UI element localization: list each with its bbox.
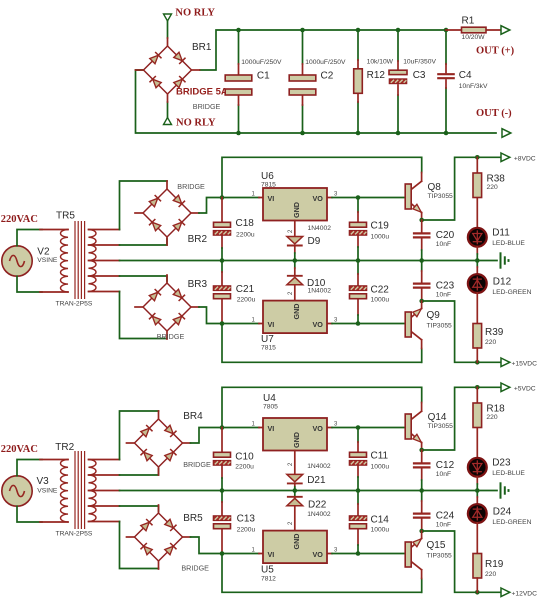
- svg-text:C18: C18: [236, 218, 255, 229]
- resistor R39: [473, 324, 482, 349]
- wire R12 bottom lead: [357, 102, 359, 133]
- svg-text:7815: 7815: [261, 182, 276, 189]
- svg-text:GND: GND: [292, 304, 301, 320]
- svg-text:BRIDGE: BRIDGE: [157, 332, 185, 341]
- node C20 bus: [419, 258, 424, 263]
- diode D22: [294, 491, 296, 498]
- svg-text:GND: GND: [292, 534, 301, 550]
- svg-text:OUT (+): OUT (+): [476, 46, 515, 57]
- svg-text:+15VDC: +15VDC: [512, 361, 538, 368]
- wire C2 bottom lead: [302, 105, 304, 133]
- node bot gnd: [475, 488, 480, 493]
- node C3 top: [396, 28, 401, 33]
- terminal NO RLY top: [164, 14, 172, 21]
- capacitor C3: [397, 61, 399, 95]
- capacitor C4: [445, 64, 447, 88]
- svg-text:TIP3055: TIP3055: [427, 323, 453, 330]
- node R18 top: [475, 385, 480, 390]
- wire Q9 collector to +15V riser: [422, 301, 500, 362]
- resistor R18: [476, 387, 478, 458]
- wire C3 bottom lead: [397, 95, 399, 133]
- node U5 input: [220, 551, 225, 556]
- svg-text:TIP3055: TIP3055: [427, 553, 453, 560]
- source V2: [2, 246, 32, 276]
- wire BR2 to U6 input node: [199, 198, 259, 214]
- capacitor C2: [302, 64, 304, 105]
- capacitor C13: [221, 491, 223, 503]
- node C22 bottom: [356, 321, 361, 326]
- node C12 bus: [419, 488, 424, 493]
- diode D10: [294, 261, 296, 269]
- capacitor C10: [221, 428, 223, 479]
- svg-text:VI: VI: [268, 424, 275, 433]
- svg-text:C4: C4: [459, 70, 472, 81]
- svg-text:1000u: 1000u: [371, 527, 390, 534]
- svg-text:2200u: 2200u: [237, 527, 256, 534]
- node Q14 emitter: [419, 448, 424, 453]
- svg-text:BRIDGE: BRIDGE: [181, 564, 209, 573]
- svg-text:TIP3055: TIP3055: [428, 423, 454, 430]
- svg-text:+12VDC: +12VDC: [512, 591, 538, 598]
- svg-text:1N4002: 1N4002: [307, 511, 331, 518]
- ground: [501, 252, 509, 268]
- svg-text:C21: C21: [236, 284, 255, 295]
- svg-text:C19: C19: [371, 221, 390, 232]
- terminal +8VDC: [501, 153, 510, 162]
- svg-text:LED-GREEN: LED-GREEN: [492, 289, 531, 296]
- svg-text:TRAN-2P5S: TRAN-2P5S: [56, 531, 93, 538]
- svg-text:1000u: 1000u: [371, 464, 390, 471]
- node C4 bottom: [444, 131, 449, 136]
- capacitor C22: [357, 261, 359, 275]
- svg-text:D11: D11: [492, 228, 510, 239]
- wire Q8 emitter to +8V riser: [422, 157, 500, 220]
- node mid gnd: [475, 258, 480, 263]
- svg-text:OUT (-): OUT (-): [476, 108, 512, 119]
- svg-text:U5: U5: [261, 565, 274, 576]
- svg-text:C10: C10: [235, 452, 254, 463]
- svg-text:VI: VI: [268, 194, 275, 203]
- wire TR2 pin2 to BR4: [120, 469, 159, 475]
- LED D24 LED-GREEN: [476, 491, 478, 498]
- transistor Q9 TIP3055: [421, 349, 423, 363]
- svg-text:BRIDGE: BRIDGE: [177, 182, 205, 191]
- regulator U5 7812: [259, 553, 332, 555]
- svg-text:2200u: 2200u: [237, 297, 256, 304]
- svg-text:R12: R12: [367, 70, 386, 81]
- wire C3 top lead: [397, 30, 399, 61]
- diode D21: [294, 450, 296, 487]
- svg-text:Q9: Q9: [427, 310, 441, 321]
- svg-text:220VAC: 220VAC: [1, 214, 38, 225]
- terminal OUT-: [502, 129, 511, 138]
- node C18 bus: [220, 258, 225, 263]
- svg-text:GND: GND: [292, 202, 301, 218]
- svg-text:BR4: BR4: [183, 411, 203, 422]
- resistor R12: [357, 60, 359, 102]
- svg-text:U7: U7: [261, 334, 274, 345]
- wire TR5 pin1 to BR2: [120, 181, 168, 230]
- svg-text:NO RLY: NO RLY: [175, 8, 215, 19]
- svg-text:10/20W: 10/20W: [462, 34, 486, 41]
- node R39 bottom: [475, 360, 480, 365]
- terminal +5VDC: [501, 383, 510, 392]
- terminal +12VDC: [501, 588, 510, 597]
- bridge rectifier BR5: [127, 505, 191, 569]
- wire Q15 collector to +12V riser: [422, 531, 500, 592]
- wire TR5 pin4 to BR3: [120, 276, 168, 281]
- svg-text:U4: U4: [263, 393, 276, 404]
- wire V2 bottom to TR5: [17, 276, 42, 292]
- svg-text:V2: V2: [37, 247, 50, 258]
- svg-text:D22: D22: [308, 500, 327, 511]
- svg-text:220: 220: [485, 339, 496, 346]
- svg-text:C13: C13: [237, 514, 256, 525]
- transistor Q15 TIP3055: [421, 579, 423, 593]
- capacitor C19: [357, 198, 359, 213]
- svg-text:D9: D9: [308, 236, 321, 247]
- wire U4 VO to Q14 base: [332, 427, 405, 429]
- wire U7 VO to Q9 base: [332, 323, 405, 325]
- svg-text:10nF: 10nF: [436, 522, 451, 529]
- svg-text:C22: C22: [371, 285, 390, 296]
- svg-text:10k/10W: 10k/10W: [367, 59, 394, 66]
- wire U5 VO to Q15 base: [332, 553, 405, 555]
- svg-text:C2: C2: [321, 71, 334, 82]
- svg-text:10uF/350V: 10uF/350V: [403, 59, 436, 66]
- svg-text:C20: C20: [436, 230, 455, 241]
- node Q9 collector: [419, 299, 424, 304]
- svg-text:TRAN-2P5S: TRAN-2P5S: [56, 301, 93, 308]
- svg-text:1N4002: 1N4002: [308, 288, 332, 295]
- svg-text:10nF: 10nF: [436, 292, 451, 299]
- svg-text:V3: V3: [37, 476, 50, 487]
- wire input riser to bottom rail: [222, 324, 422, 363]
- transistor Q8 TIP3055: [405, 173, 421, 221]
- svg-text:C14: C14: [371, 515, 390, 526]
- capacitor C12: [421, 450, 423, 480]
- node U6 input: [220, 195, 225, 200]
- svg-text:1N4002: 1N4002: [307, 463, 331, 470]
- terminal OUT+: [501, 26, 510, 35]
- terminal NO RLY bottom: [164, 118, 172, 125]
- svg-text:R39: R39: [485, 327, 504, 338]
- terminal +15VDC: [501, 358, 510, 367]
- svg-text:BRIDGE: BRIDGE: [193, 102, 221, 111]
- node C11 top: [356, 425, 361, 430]
- node U7 input: [220, 321, 225, 326]
- wire C4 bottom lead: [445, 88, 447, 133]
- node C3 bottom: [396, 131, 401, 136]
- wire bridge to NO RLY bottom: [167, 102, 169, 118]
- svg-text:VO: VO: [313, 550, 324, 559]
- wire C2 top lead: [302, 30, 304, 64]
- LED D12 LED-GREEN: [476, 261, 478, 268]
- svg-text:10nF: 10nF: [436, 471, 451, 478]
- transformer TR5: [40, 221, 120, 299]
- svg-text:+8VDC: +8VDC: [514, 155, 536, 162]
- wire NO RLY top to bridge: [167, 21, 169, 38]
- node C2 top: [300, 28, 305, 33]
- node C14 bottom: [356, 551, 361, 556]
- capacitor C11: [357, 428, 359, 443]
- bridge rectifier BR3: [135, 275, 199, 339]
- bridge rectifier BR1: [136, 38, 200, 102]
- svg-text:C24: C24: [436, 511, 455, 522]
- svg-text:GND: GND: [292, 432, 301, 448]
- regulator U6 7815: [259, 197, 332, 199]
- svg-text:VSINE: VSINE: [37, 488, 58, 495]
- wire V3 bottom to TR2: [17, 506, 42, 522]
- wire V2 top to TR5: [17, 230, 42, 246]
- capacitor C20: [421, 220, 423, 250]
- wire V3 top to TR2: [17, 460, 42, 476]
- svg-text:C23: C23: [436, 281, 455, 292]
- node R12 bottom: [356, 131, 361, 136]
- svg-text:D21: D21: [307, 475, 326, 486]
- svg-text:BR3: BR3: [188, 279, 208, 290]
- svg-text:7812: 7812: [261, 576, 276, 583]
- node R19 bottom: [475, 590, 480, 595]
- wire input riser to bottom rail: [222, 554, 422, 593]
- node C4 top: [444, 28, 449, 33]
- svg-text:VSINE: VSINE: [37, 257, 58, 264]
- source V3: [2, 476, 32, 506]
- wire TR5 pin5 to BR3: [120, 292, 168, 339]
- svg-text:1000uF/250V: 1000uF/250V: [241, 59, 282, 66]
- svg-text:Q15: Q15: [427, 540, 446, 551]
- wire R12 top lead: [357, 30, 359, 60]
- svg-text:1N4002: 1N4002: [308, 225, 332, 232]
- wire BR4 to U4 input node: [191, 428, 260, 444]
- svg-text:VO: VO: [313, 424, 324, 433]
- node C19 top: [356, 195, 361, 200]
- node C2 bottom: [300, 131, 305, 136]
- wire top bus: [200, 30, 446, 70]
- wire BR5 to U5 input node: [191, 537, 260, 554]
- svg-text:1000u: 1000u: [371, 234, 390, 241]
- svg-text:R1: R1: [462, 16, 475, 27]
- wire BR3 to U7 input node: [199, 307, 259, 324]
- wire input riser to top rail: [222, 157, 422, 197]
- svg-text:R38: R38: [487, 174, 506, 185]
- node C1 top: [236, 28, 241, 33]
- svg-text:220: 220: [486, 414, 497, 421]
- svg-text:220VAC: 220VAC: [1, 444, 38, 455]
- svg-text:U6: U6: [261, 171, 274, 182]
- LED D23 LED-BLUE: [468, 458, 487, 477]
- svg-text:1000u: 1000u: [371, 297, 390, 304]
- wire C4 top lead: [445, 30, 447, 64]
- resistor R38: [476, 157, 478, 228]
- svg-text:VO: VO: [313, 320, 324, 329]
- node Q8 emitter: [419, 218, 424, 223]
- svg-text:BR5: BR5: [183, 513, 203, 524]
- svg-text:BR1: BR1: [192, 42, 212, 53]
- wire TR5 pin2 to BR2: [120, 239, 168, 245]
- svg-text:TR5: TR5: [56, 211, 75, 222]
- svg-text:10nF/3kV: 10nF/3kV: [459, 83, 488, 90]
- svg-text:NO RLY: NO RLY: [176, 118, 216, 129]
- svg-text:7815: 7815: [261, 345, 276, 352]
- capacitor C23: [421, 261, 423, 272]
- wire U6 VO to Q8 base: [332, 197, 405, 199]
- resistor R19: [473, 554, 482, 579]
- svg-text:LED-BLUE: LED-BLUE: [492, 470, 525, 477]
- wire center tap bus: [120, 490, 498, 492]
- diode D9: [294, 220, 296, 253]
- svg-text:C3: C3: [413, 70, 426, 81]
- wire center tap bus: [120, 260, 498, 262]
- node R12 top: [356, 28, 361, 33]
- svg-text:D24: D24: [493, 507, 512, 518]
- capacitor C24: [421, 491, 423, 502]
- capacitor C21: [221, 261, 223, 273]
- node C10 bus: [220, 488, 225, 493]
- wire Q14 emitter to +5V riser: [422, 387, 500, 450]
- svg-text:D12: D12: [493, 277, 512, 288]
- svg-text:2200u: 2200u: [235, 464, 254, 471]
- svg-text:BRIDGE: BRIDGE: [183, 460, 211, 469]
- node C1 bottom: [236, 131, 241, 136]
- svg-text:VI: VI: [268, 550, 275, 559]
- svg-text:2200u: 2200u: [236, 232, 255, 239]
- wire TR2 pin4 to BR5: [120, 506, 159, 511]
- wire C1 top lead: [238, 30, 240, 64]
- svg-text:C1: C1: [257, 71, 270, 82]
- wire input riser to top rail: [222, 387, 422, 427]
- svg-text:Q8: Q8: [428, 182, 442, 193]
- wire TR2 pin1 to BR4: [120, 411, 159, 460]
- node Q15 collector: [419, 529, 424, 534]
- svg-text:10nF: 10nF: [436, 241, 451, 248]
- node U4 input: [220, 425, 225, 430]
- capacitor C14: [357, 491, 359, 505]
- svg-text:Q14: Q14: [428, 412, 447, 423]
- svg-text:BR2: BR2: [188, 234, 208, 245]
- wire C1 bottom lead: [238, 105, 240, 133]
- svg-text:220: 220: [487, 184, 498, 191]
- svg-text:VI: VI: [268, 320, 275, 329]
- wire TR2 pin5 to BR5: [120, 522, 159, 569]
- svg-text:LED-BLUE: LED-BLUE: [492, 240, 525, 247]
- node D21 bus: [293, 488, 298, 493]
- svg-text:220: 220: [485, 571, 496, 578]
- svg-text:VO: VO: [313, 194, 324, 203]
- capacitor C18: [221, 198, 223, 249]
- svg-text:TR2: TR2: [55, 442, 74, 453]
- svg-text:+5VDC: +5VDC: [514, 385, 536, 392]
- resistor R1: [446, 29, 500, 31]
- LED D11 LED-BLUE: [468, 228, 487, 247]
- svg-text:7805: 7805: [263, 404, 278, 411]
- regulator U7 7815: [259, 323, 332, 325]
- wire bottom bus: [136, 70, 497, 133]
- capacitor C1: [238, 64, 240, 105]
- node D9 bus: [293, 258, 298, 263]
- svg-text:LED-GREEN: LED-GREEN: [492, 519, 531, 526]
- svg-text:TIP3055: TIP3055: [428, 193, 454, 200]
- svg-text:C12: C12: [436, 460, 455, 471]
- node R38 top: [475, 155, 480, 160]
- svg-text:1000uF/250V: 1000uF/250V: [305, 59, 346, 66]
- transistor Q14 TIP3055: [405, 403, 421, 451]
- svg-text:D23: D23: [492, 458, 511, 469]
- svg-text:R18: R18: [486, 404, 505, 415]
- svg-text:C11: C11: [371, 451, 389, 462]
- ground: [501, 482, 509, 498]
- svg-text:R19: R19: [485, 559, 504, 570]
- svg-text:BRIDGE 5A: BRIDGE 5A: [176, 87, 228, 98]
- transformer TR2: [40, 451, 120, 529]
- regulator U4 7805: [259, 427, 332, 429]
- node C19 bus: [356, 258, 361, 263]
- bridge rectifier BR4: [127, 411, 191, 475]
- bridge rectifier BR2: [135, 181, 199, 245]
- node C11 bus: [356, 488, 361, 493]
